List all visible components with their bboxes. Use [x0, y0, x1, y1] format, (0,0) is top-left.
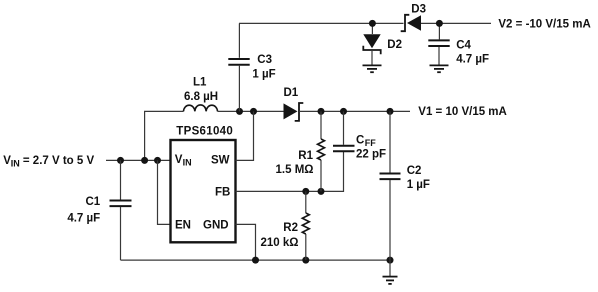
svg-text:D2: D2 [387, 39, 402, 51]
op-amp U1 TPS61040 box [171, 126, 236, 243]
capacitor C1 [67, 160, 131, 260]
label VIN input [3, 155, 94, 168]
svg-text:C: C [356, 135, 364, 147]
capacitor C2 [380, 111, 430, 260]
svg-text:SW: SW [211, 155, 230, 167]
wire D1 to V1 output [299, 110, 410, 112]
diode D3 [401, 3, 426, 31]
node R1 bottom [318, 188, 325, 195]
wire FB line [236, 152, 344, 191]
node EN riser [154, 157, 161, 164]
node GND riser bottom [252, 257, 259, 264]
svg-text:R2: R2 [283, 222, 298, 234]
node R2 top [302, 188, 309, 195]
capacitor CFF [333, 111, 386, 160]
node C2 bottom [387, 257, 394, 264]
wire C3 branch [238, 66, 240, 112]
wire GND pin riser [236, 224, 256, 260]
svg-text:EN: EN [175, 220, 191, 232]
node L1 riser [141, 157, 148, 164]
svg-text:C3: C3 [257, 54, 272, 66]
svg-text:22 pF: 22 pF [356, 149, 386, 161]
wire top rail left segment [239, 22, 404, 24]
svg-text:L1: L1 [193, 77, 207, 89]
svg-text:TPS61040: TPS61040 [176, 126, 233, 138]
wire VIN rail [106, 159, 171, 161]
svg-text:1.5 MΩ: 1.5 MΩ [276, 164, 314, 176]
node L1/C3 junction [236, 108, 243, 115]
svg-text:D1: D1 [284, 87, 299, 99]
svg-text:C2: C2 [407, 165, 422, 177]
ground below D2 [363, 65, 382, 72]
inductor L1 [184, 77, 219, 112]
resistor R1 [276, 111, 325, 191]
wire L1 to D1 [218, 110, 284, 112]
node C2 top [387, 108, 394, 115]
node on top rail at C4 [436, 20, 443, 27]
svg-text:R1: R1 [298, 150, 313, 162]
svg-text:D3: D3 [411, 3, 426, 15]
wire riser from VIN rail to L1 row [145, 111, 184, 160]
svg-text:IN: IN [183, 158, 192, 168]
wire EN riser [158, 160, 171, 224]
svg-text:4.7 µF: 4.7 µF [456, 54, 489, 66]
svg-text:C4: C4 [456, 40, 471, 52]
capacitor C3 [228, 23, 275, 80]
svg-text:C1: C1 [85, 196, 100, 208]
resistor R2 [261, 191, 310, 260]
diode D1 [284, 87, 304, 121]
svg-text:= 2.7 V to 5 V: = 2.7 V to 5 V [23, 155, 95, 167]
wire SW pin riser [236, 111, 254, 160]
svg-text:V2 = -10 V/15 mA: V2 = -10 V/15 mA [498, 18, 590, 30]
svg-text:V: V [175, 154, 183, 166]
svg-text:V1 = 10 V/15 mA: V1 = 10 V/15 mA [418, 106, 507, 118]
svg-text:1 µF: 1 µF [252, 69, 275, 81]
node SW junction [250, 108, 257, 115]
capacitor C4 [428, 23, 489, 65]
svg-text:FF: FF [365, 138, 376, 148]
svg-text:4.7 µF: 4.7 µF [67, 213, 100, 225]
svg-text:6.8 µH: 6.8 µH [184, 91, 218, 103]
node R1 top [318, 108, 325, 115]
svg-text:IN: IN [11, 158, 20, 168]
ground below C4 [430, 65, 449, 72]
wire bottom rail [121, 259, 391, 261]
node R2 bottom [302, 257, 309, 264]
node C1 top [117, 157, 124, 164]
node on top rail at D2 [369, 20, 376, 27]
node CFF top [340, 108, 347, 115]
svg-text:1 µF: 1 µF [407, 179, 430, 191]
svg-text:210 kΩ: 210 kΩ [261, 237, 299, 249]
wire top rail right segment [421, 22, 491, 24]
diode D2 [363, 23, 402, 64]
svg-text:GND: GND [203, 220, 229, 232]
ground bottom right [383, 260, 398, 284]
svg-text:FB: FB [215, 187, 230, 199]
